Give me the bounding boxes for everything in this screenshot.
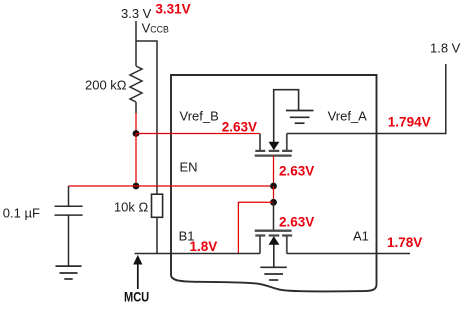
svg-text:3.31V: 3.31V [155,2,190,17]
node dot2 junction [270,199,277,206]
svg-text:2.63V: 2.63V [279,214,314,229]
wire Vref_B row (red) [136,133,260,135]
Q2 source stub (left, B1) [259,236,261,254]
Q1 bulk arrowhead [269,142,280,151]
svg-text:Vref_A: Vref_A [328,109,368,124]
ground (capacitor) [56,266,82,279]
wire 1.8V supply to Q1 drain [287,64,446,134]
Q2 bulk wire to ground [273,244,275,267]
svg-text:200 kΩ: 200 kΩ [85,78,127,93]
wire dot1 to dot2 (red) [273,186,275,202]
Q2 gate plate [255,230,292,232]
svg-text:2.63V: 2.63V [279,163,314,178]
Q1 channel contact bars [255,150,292,152]
wire Q1 gate lead (red) [273,156,275,186]
IC boundary box with wavy bottom [171,75,377,291]
svg-text:A1: A1 [353,229,369,244]
Q1 source stub (left, Vref_B) [259,134,261,151]
wire B1 row [135,253,261,255]
wire Vref_B node down to EN node (red) [135,134,137,187]
node dot1 EN/gate junction [270,183,277,190]
svg-text:1.794V: 1.794V [388,114,431,129]
MCU arrow [137,263,139,289]
wire 10k bottom to B1 row [156,217,158,253]
Q2 channel contact bars [255,234,292,236]
wire 200k bottom to Vref_B node (black part) [135,102,137,113]
ground (Q1 bulk) [286,111,314,124]
svg-text:2.63V: 2.63V [222,120,257,135]
Q1 gate plate [255,154,292,156]
wire red path from dot2 to B1 row [238,202,273,253]
wire EN row (red) from capacitor to gate node [69,185,274,187]
transistor Q2 (bottom pass FET) [255,231,293,267]
transistor Q1 (top pass FET) [255,90,299,156]
svg-text:0.1 µF: 0.1 µF [3,206,40,221]
resistor 200 kΩ [130,66,142,102]
wire dot2 to Q2 gate (black) [273,202,275,230]
Q2 bulk arrowhead [269,236,280,245]
svg-text:1.8 V: 1.8 V [430,41,461,56]
wire A1 row [287,253,410,255]
svg-text:10k Ω: 10k Ω [114,200,149,215]
capacitor C1 0.1 µF [55,186,83,266]
Q1 bulk wire to ground [274,90,299,143]
Q1 drain stub (right, to 1.8V) [286,134,288,151]
svg-text:3.3 V: 3.3 V [121,6,152,21]
wire branch to 10k resistor [136,41,157,194]
node EN junction [133,183,140,190]
ground (Q2 bulk) [260,267,287,280]
svg-text:Vref_B: Vref_B [180,109,219,124]
wire supply vertical from 3.3V [135,21,137,66]
Q2 drain stub (right, A1) [286,236,288,254]
resistor 10k Ω (box style) [152,194,163,217]
wire 200k bottom to Vref_B node (red part) [135,113,137,134]
node Vref_B junction [133,130,140,137]
svg-text:EN: EN [180,159,198,174]
svg-text:MCU: MCU [124,289,149,304]
svg-text:1.8V: 1.8V [190,239,218,254]
svg-text:1.78V: 1.78V [387,235,422,250]
